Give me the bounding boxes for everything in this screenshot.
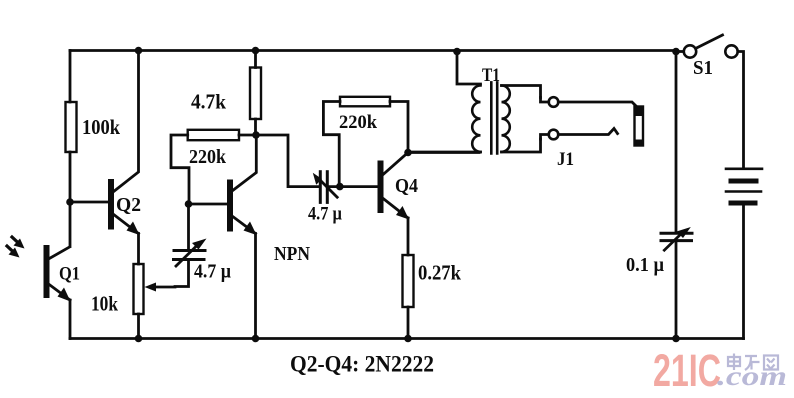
svg-text:220k: 220k [339,113,378,133]
node junction cap/NPN base [185,200,193,208]
jack J1 [541,97,645,146]
svg-text:S1: S1 [693,57,713,79]
node junction 4.7k / 220k [252,131,260,139]
capacitor C3 0.1u trimmer [661,52,692,339]
transformer T1 [408,52,541,154]
svg-text:4.7 µ: 4.7 µ [194,261,231,283]
svg-text:Q1: Q1 [59,264,80,285]
wire top rail [70,49,676,52]
node junction 100k/Q2 base [66,198,74,206]
svg-text:4.7k: 4.7k [191,90,226,114]
node junction top rail / 4.7k [252,47,260,55]
svg-text:4.7 µ: 4.7 µ [308,204,342,225]
node junction NPN emitter bottom rail [252,335,260,343]
light arrows into Q1 [7,237,25,258]
svg-text:T1: T1 [482,65,500,86]
capacitor C1 4.7u trimmer (left) [174,204,207,287]
switch S1 [676,35,744,169]
svg-text:Q2-Q4: 2N2222: Q2-Q4: 2N2222 [290,352,434,377]
node junction top rail / primary [453,48,461,56]
svg-text:100k: 100k [82,115,120,139]
resistor R4 220k (top) [323,97,408,187]
svg-text:Q2: Q2 [116,194,141,216]
potentiometer 10k [134,264,176,339]
resistor R2 220k (left) [171,130,256,204]
node junction 0.1u bottom rail [672,335,680,343]
transistor Q2 [70,51,140,265]
node junction 0.27k bottom rail [404,335,412,343]
transistor Q3 NPN [189,135,257,339]
node junction top rail / Q2 collector [135,47,143,55]
transistor Q4 [381,153,410,256]
node junction Q4 collector / 220k / primary [404,149,412,157]
node junction 10k bottom rail [135,335,143,343]
resistor R5 0.27k [403,255,414,339]
wire bottom rail [70,337,744,340]
resistor R3 4.7k [250,51,261,136]
capacitor C2 4.7u trimmer (coupling) [313,172,378,203]
wire left vertical Q1/100k branch [69,51,72,339]
svg-text:0.1 µ: 0.1 µ [626,254,664,276]
svg-text:.com: .com [717,361,787,391]
wire 220k-junction to coupling cap [256,135,318,187]
svg-text:Q4: Q4 [395,175,418,197]
watermark dianziwang (drawn glyphs) [728,354,778,371]
svg-text:10k: 10k [91,292,118,316]
transistor Q1 phototransistor [47,247,71,302]
svg-text:0.27k: 0.27k [418,261,461,285]
battery B1 [726,169,762,339]
svg-text:21IC: 21IC [653,345,721,396]
wire junction to transformer primary bottom [408,151,479,154]
resistor R1 100k [66,102,77,152]
svg-text:NPN: NPN [274,243,310,265]
node junction cap / 220k / Q4 base [336,183,344,191]
svg-text:J1: J1 [557,149,574,170]
svg-text:220k: 220k [189,146,227,168]
node junction top rail / S1 / 0.1u [672,48,680,56]
